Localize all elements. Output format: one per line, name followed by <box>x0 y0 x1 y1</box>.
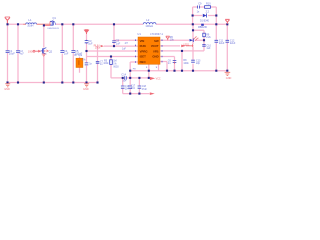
wire output cap C12 branch <box>226 24 228 70</box>
junction LED anode <box>203 39 205 41</box>
ground right <box>225 72 231 75</box>
junction VOUT end <box>226 23 228 25</box>
svg-text:MBR230: MBR230 <box>198 27 208 29</box>
svg-text:10uH: 10uH <box>27 24 33 28</box>
capacitor C17 <box>128 86 132 88</box>
wire gnd rail left <box>8 82 98 84</box>
junction C18 top <box>138 77 140 79</box>
capacitor C1 <box>6 51 10 53</box>
junction rail x97.5 <box>96 81 98 83</box>
wire R5 branch <box>111 57 122 78</box>
port VOUT flag <box>225 19 229 23</box>
IC U1 pin names left <box>140 39 148 64</box>
svg-text:4/7: 4/7 <box>125 43 129 45</box>
svg-text:100k: 100k <box>103 63 109 65</box>
svg-text:VOUT: VOUT <box>151 44 159 48</box>
wire red segment into L1 <box>23 23 26 25</box>
junction top-left <box>6 23 8 25</box>
wire IC pin right row3 <box>160 50 204 52</box>
junction lower wire <box>129 93 131 95</box>
svg-text:2.2k: 2.2k <box>206 36 211 39</box>
wire IC pin5 left <box>130 62 138 94</box>
wire RUN branch vertical <box>97 46 99 82</box>
junction Q1 gate <box>43 24 45 26</box>
capacitor C3 <box>85 40 89 44</box>
resistor R5 <box>110 60 113 65</box>
wire snubber top branch <box>193 7 217 16</box>
power flag VCC down <box>85 30 89 34</box>
junction vout1 <box>215 23 217 25</box>
ground left rail 1 <box>5 84 10 87</box>
capacitor C13 <box>191 60 195 62</box>
svg-text:R10: R10 <box>206 2 211 5</box>
junction rail x43.8 <box>43 81 45 83</box>
inductor L1 <box>26 23 37 24</box>
wire red segment L1 to Q1 <box>37 23 50 25</box>
junction rail x62.3 <box>61 81 63 83</box>
svg-text:9: 9 <box>156 67 158 69</box>
wire IC pin right row5 <box>160 62 167 71</box>
junction rail C11 <box>215 70 217 72</box>
svg-text:GND: GND <box>152 55 158 59</box>
junction lower wire C18 <box>138 93 140 95</box>
LED D1 <box>190 36 199 42</box>
capacitor C10 <box>202 45 205 47</box>
junction R5 top <box>110 55 112 57</box>
net flag arrow PGOOD <box>181 45 186 48</box>
svg-text:1%: 1% <box>82 59 86 62</box>
diode D2 <box>203 14 207 18</box>
junction SW snubber <box>192 29 194 31</box>
svg-text:1uF: 1uF <box>116 41 121 45</box>
ground left rail 2 <box>84 84 89 87</box>
svg-text:L2: L2 <box>146 18 150 22</box>
junction rail gnd <box>226 70 228 72</box>
wire IC pin4 left <box>87 56 139 58</box>
junction rail C6 <box>173 70 175 72</box>
capacitor C12 <box>226 40 230 42</box>
wire Q1 gate vertical <box>43 25 45 82</box>
svg-text:2.2: 2.2 <box>206 10 210 13</box>
wire INTVCC lower <box>123 78 150 94</box>
svg-text:1uF: 1uF <box>122 48 127 50</box>
IC U1 <box>138 37 160 64</box>
junction rail C13 <box>192 70 194 72</box>
junction node SW1 <box>61 23 63 25</box>
capacitor C9 snubber <box>197 6 199 9</box>
resistor R9 ton <box>203 33 206 37</box>
capacitor C7 <box>85 63 89 65</box>
svg-text:GND: GND <box>4 88 10 91</box>
svg-text:C9: C9 <box>198 2 202 5</box>
svg-text:ISET: ISET <box>140 55 147 59</box>
wire VIN pin feed vertical <box>113 24 115 46</box>
port VIN flag top-left <box>5 17 10 24</box>
capacitor C4 <box>60 51 64 53</box>
capacitor C2 <box>16 51 20 53</box>
capacitor C18 <box>138 86 142 88</box>
wire left verticals <box>8 24 74 82</box>
svg-text:100k: 100k <box>95 47 101 50</box>
svg-text:D1 B340: D1 B340 <box>200 21 210 23</box>
capacitor C16 <box>121 86 125 88</box>
svg-text:100uH: 100uH <box>145 24 153 28</box>
wire IC pin right row2 <box>160 45 180 47</box>
junction rail x7.5 <box>6 81 8 83</box>
transistor Q2 <box>41 48 49 54</box>
svg-text:SW: SW <box>154 39 159 43</box>
svg-text:0603: 0603 <box>113 66 119 68</box>
junction VIN cap <box>113 23 115 25</box>
capacitor C8 <box>112 41 116 43</box>
capacitor C14 bypass <box>125 76 127 79</box>
wire C18 branch <box>138 78 140 94</box>
capacitor C6 <box>173 60 177 62</box>
svg-text:LTC3637-1: LTC3637-1 <box>150 32 163 36</box>
svg-text:100k: 100k <box>183 62 189 65</box>
junction IC gnd rail <box>148 70 150 72</box>
svg-text:VCC: VCC <box>156 78 161 81</box>
svg-text:FBO: FBO <box>140 60 147 64</box>
junction rail x73.3 <box>72 81 74 83</box>
svg-text:VIN: VIN <box>140 39 145 43</box>
inductor L2 <box>143 23 156 25</box>
svg-text:1n: 1n <box>197 10 200 13</box>
pin stub right row5 <box>161 61 163 63</box>
svg-text:1%: 1% <box>113 64 116 66</box>
wire gnd rail right <box>130 70 227 72</box>
wire top rail VIN <box>8 23 228 25</box>
IC U1 pin names right <box>151 39 159 59</box>
svg-text:3: 3 <box>146 67 148 69</box>
svg-text:RUN: RUN <box>140 44 146 48</box>
svg-text:VFB: VFB <box>153 49 159 53</box>
svg-text:1uF: 1uF <box>206 47 211 50</box>
junction FBO <box>129 70 131 72</box>
svg-text:DMG2305UX: DMG2305UX <box>48 28 60 30</box>
svg-text:22uF: 22uF <box>219 42 225 45</box>
svg-text:1n: 1n <box>168 62 171 65</box>
svg-text:C14: C14 <box>121 74 126 77</box>
wire IC pin right row1 <box>160 39 204 41</box>
junction rail x86.5 <box>85 81 87 83</box>
junction node SW2 <box>72 23 74 25</box>
IC pin stubs left <box>135 39 137 62</box>
capacitor on RUN branch <box>96 62 100 64</box>
svg-text:1n: 1n <box>89 63 92 66</box>
wire IC pin2 left <box>104 45 138 47</box>
svg-text:GND: GND <box>226 77 232 80</box>
wire bypass caps row <box>127 77 149 79</box>
svg-text:22uF: 22uF <box>230 42 236 45</box>
junction rail pin5 <box>166 70 168 72</box>
svg-text:Q2: Q2 <box>49 49 53 53</box>
power flag up INTVCC <box>166 36 170 40</box>
junction SW rail left <box>192 23 194 25</box>
svg-text:1uF: 1uF <box>64 51 69 55</box>
svg-text:4u7: 4u7 <box>19 52 24 56</box>
resistor R3 inline <box>33 50 41 52</box>
junction rail x18 <box>17 81 19 83</box>
svg-text:104: 104 <box>125 89 130 91</box>
svg-text:Q1: Q1 <box>52 16 56 20</box>
capacitor C11 <box>215 40 219 42</box>
wire diode row <box>193 16 217 25</box>
svg-text:GND: GND <box>83 88 89 91</box>
transistor Q1 <box>44 20 56 26</box>
wire IC pin3 left <box>87 50 139 52</box>
junction diode right <box>215 14 217 16</box>
svg-text:104: 104 <box>131 88 136 90</box>
wire ton resistor branch <box>193 30 204 51</box>
wire SW node vertical <box>192 24 194 70</box>
capacitor C5 <box>71 51 75 53</box>
junction C2 top <box>17 23 19 25</box>
wire output cap C11 branch <box>215 24 217 70</box>
svg-text:22p: 22p <box>196 62 201 65</box>
wire IC pin1 left <box>114 39 138 41</box>
net flag ISET arrow <box>150 92 155 95</box>
svg-text:VPRG: VPRG <box>140 49 148 53</box>
resistor R10 snubber <box>205 6 211 9</box>
wire C3 branch vertical <box>86 34 88 83</box>
net flag INTVCC arrow <box>150 77 155 80</box>
svg-text:1uF: 1uF <box>88 43 93 46</box>
junction C14 left <box>122 77 124 79</box>
junction pin2 wire <box>113 45 115 47</box>
junction C15 left <box>129 77 131 79</box>
wire IC bottom pins <box>149 64 159 78</box>
junction C3/pin3 <box>85 50 87 52</box>
svg-text:C18: C18 <box>142 86 147 88</box>
wire R7 stubs <box>79 57 81 73</box>
junction diode left <box>192 14 194 16</box>
svg-text:10uF: 10uF <box>9 52 15 56</box>
junction bypass right <box>148 77 150 79</box>
svg-text:47uF: 47uF <box>142 89 148 91</box>
resistor R7 orange <box>76 58 83 67</box>
svg-text:104: 104 <box>122 80 127 83</box>
wire C6 branch <box>181 51 183 71</box>
svg-text:L1: L1 <box>28 18 32 22</box>
wire IC pin right row4 <box>160 57 175 71</box>
junction rail R8 <box>181 70 183 72</box>
ground Q2 source <box>42 54 46 56</box>
IC pin stubs right <box>161 39 163 57</box>
svg-text:1M: 1M <box>113 60 116 63</box>
svg-text:U1: U1 <box>137 32 141 36</box>
junction pin3 wire <box>181 50 183 52</box>
